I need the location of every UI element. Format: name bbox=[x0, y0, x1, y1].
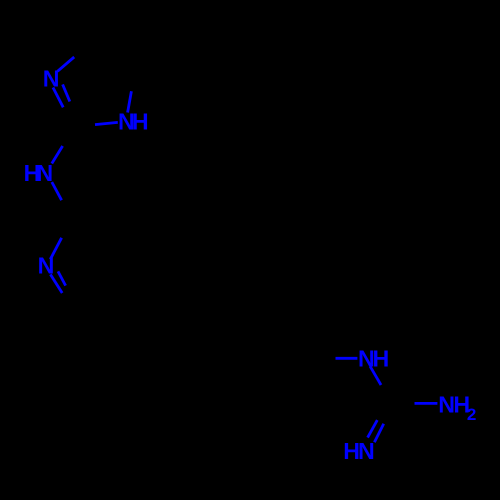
svg-text:N: N bbox=[36, 160, 53, 186]
svg-text:H: H bbox=[373, 346, 390, 372]
svg-text:2: 2 bbox=[467, 405, 476, 424]
svg-text:N: N bbox=[358, 438, 375, 464]
svg-text:H: H bbox=[132, 109, 149, 135]
svg-text:N: N bbox=[38, 253, 55, 279]
svg-text:N: N bbox=[43, 65, 60, 91]
